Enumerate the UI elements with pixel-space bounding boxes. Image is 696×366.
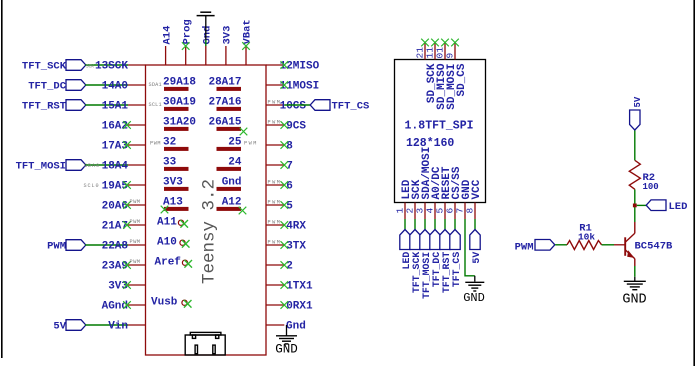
svg-text:1.8TFT_SPI: 1.8TFT_SPI (405, 120, 474, 133)
svg-text:PWM: PWM (268, 239, 282, 245)
Teensy pin 8 (right) (266, 144, 284, 146)
TFT top pin 10 SD_MOSI (444, 43, 446, 60)
TFT bottom pin 7 GND (464, 203, 466, 220)
svg-text:27A16: 27A16 (208, 96, 241, 108)
no-connect cross pin Prog (182, 42, 190, 50)
Teensy pin 19A5 (no connect) (127, 184, 146, 186)
svg-text:22A8: 22A8 (102, 241, 129, 253)
wire pin 1 to flag LED (404, 219, 406, 230)
no-connect cross pin 5 (281, 201, 289, 209)
Teensy pin 14A0 (connected) (128, 84, 146, 86)
svg-text:MISO: MISO (293, 61, 320, 73)
earth ground symbol above Teensy (inverted) (197, 15, 215, 17)
no-connect cross pin VBat (242, 42, 250, 50)
svg-text:A12: A12 (222, 196, 242, 208)
wire junction up to R2 (634, 189, 636, 203)
svg-text:9: 9 (445, 53, 456, 59)
svg-text:RX: RX (293, 221, 307, 233)
Teensy top pin 3V3 (225, 46, 227, 65)
TFT bottom pin 4 A0/DC (434, 203, 436, 220)
transistor Q1 BC547B (614, 222, 635, 266)
svg-text:PWM: PWM (268, 119, 282, 125)
svg-text:14A0: 14A0 (102, 81, 128, 93)
svg-text:8: 8 (465, 208, 476, 214)
no-connect cross pin 7 (281, 161, 289, 169)
wire pin 10CS to TFT_CS flag (284, 104, 310, 106)
sheet frame right border (693, 0, 695, 366)
svg-text:Gnd: Gnd (286, 321, 306, 333)
no-connect cross pin 4RX (281, 221, 289, 229)
svg-text:PWM: PWM (47, 241, 66, 253)
no-connect cross pad A12 (239, 207, 247, 215)
svg-text:RX1: RX1 (293, 301, 313, 313)
svg-text:GND: GND (463, 291, 485, 305)
net flag LED (646, 200, 666, 211)
wire TFT_DC to pin 14A0 (85, 84, 128, 86)
wire pin Gnd to GND symbol (286, 325, 288, 336)
svg-text:PWM: PWM (268, 199, 282, 205)
no-connect cross pin 11MOSI (281, 81, 289, 89)
svg-text:TFT_RST: TFT_RST (22, 101, 66, 113)
svg-text:30A19: 30A19 (163, 96, 196, 108)
svg-text:Aref: Aref (155, 256, 182, 268)
sheet frame left border (1, 0, 3, 358)
wire junction to LED flag (637, 204, 648, 206)
no-connect cross pad A13 (161, 206, 169, 214)
Teensy pin 5 (right) (266, 204, 284, 206)
svg-text:Teensy 3.2: Teensy 3.2 (200, 179, 220, 284)
svg-text:PWM: PWM (515, 241, 534, 253)
svg-text:25: 25 (228, 136, 242, 148)
IC U1 Teensy 3.2 body outline (146, 65, 267, 355)
Teensy pin 4RX (right) (266, 224, 284, 226)
no-connect cross pin 0RX1 (281, 301, 289, 309)
no-connect cross pin 2 (281, 261, 289, 269)
wire pin 4 to flag TFT_DC (434, 219, 436, 230)
svg-text:BC547B: BC547B (635, 241, 674, 253)
svg-text:26A15: 26A15 (208, 116, 241, 128)
svg-text:PWM: PWM (130, 239, 141, 245)
svg-text:Prog: Prog (181, 19, 193, 44)
svg-text:PWM: PWM (130, 199, 141, 205)
TFT top pin 11 SD_MISO (434, 43, 436, 60)
svg-text:18A4: 18A4 (102, 161, 129, 173)
Teensy pin 21A7 (no connect) (127, 224, 146, 226)
no-connect cross pad A15 (240, 128, 248, 136)
net flag TFT_CS (310, 100, 330, 111)
wire PWM to pin 22A8 (85, 244, 128, 246)
Teensy pin 3V3 (no connect) (127, 284, 146, 286)
Teensy pin 15A1 (connected) (128, 104, 146, 106)
TFT bottom pin 2 SCK (414, 203, 416, 220)
svg-text:LED: LED (669, 201, 688, 213)
svg-text:10: 10 (280, 101, 293, 113)
wire pin 2 to flag TFT_SCK (414, 219, 416, 230)
svg-text:GND: GND (622, 292, 646, 307)
no-connect cross pin 3TX (281, 241, 289, 249)
wire R1 to base (602, 244, 614, 246)
Teensy pin 20A6 (no connect) (127, 204, 146, 206)
Teensy pin 6 (right) (266, 184, 284, 186)
svg-text:PWM: PWM (268, 179, 282, 185)
svg-text:A10: A10 (157, 236, 177, 248)
svg-text:CS: CS (293, 121, 307, 133)
no-connect cross pin 12MISO (281, 61, 289, 69)
ground symbol GND at transistor (624, 280, 646, 282)
svg-text:SDA1: SDA1 (149, 82, 162, 88)
svg-text:Gnd: Gnd (202, 26, 214, 45)
svg-text:5V: 5V (53, 321, 66, 333)
ground symbol GND at Teensy (276, 335, 297, 337)
Teensy top pin A14 (165, 46, 167, 65)
svg-text:A13: A13 (163, 196, 183, 208)
svg-text:15A1: 15A1 (102, 101, 129, 113)
svg-text:Vusb: Vusb (151, 296, 178, 308)
net flag LED below TFT (400, 230, 410, 250)
USB connector drawing on Teensy (185, 332, 225, 355)
wire pin 6 to flag TFT_CS (454, 219, 456, 230)
Teensy top pin Gnd (205, 46, 207, 65)
no-connect cross pin 9CS (281, 121, 289, 129)
no-connect cross pin Vusb (184, 300, 192, 308)
svg-text:24: 24 (228, 156, 242, 168)
Teensy pin 10CS (right) (266, 104, 284, 106)
Teensy pin AGnd (no connect) (127, 304, 146, 306)
svg-text:TFT_MOSI: TFT_MOSI (16, 161, 66, 173)
wire R2 to 5V flag (634, 130, 636, 160)
svg-text:PWM: PWM (150, 141, 161, 147)
wire TFT_SCK to pin 13SCK (85, 64, 128, 66)
TFT bottom pin 3 SDA/MOSI (424, 203, 426, 220)
wire pin 8 to flag 5V (474, 219, 476, 230)
TFT bottom pin 8 VCC (474, 203, 476, 220)
Teensy pin Gnd (right) (266, 324, 284, 326)
svg-text:3V3: 3V3 (163, 176, 183, 188)
wire pin 3 to flag TFT_MOSI (424, 219, 426, 230)
Teensy pin Vin (connected) (128, 324, 146, 326)
svg-text:VBat: VBat (242, 19, 254, 44)
svg-text:100: 100 (643, 182, 659, 192)
svg-text:TX: TX (293, 241, 307, 253)
Teensy pin 7 (right) (266, 164, 284, 166)
svg-text:10k: 10k (578, 232, 595, 243)
svg-text:3V3: 3V3 (222, 26, 234, 45)
svg-text:PWM: PWM (244, 141, 258, 147)
net flag TFT_CS below TFT (450, 230, 460, 250)
svg-text:A14: A14 (161, 26, 173, 45)
supply flag 5V (right circuit) (630, 110, 640, 130)
TFT top pin 9 SD_CS (454, 43, 456, 60)
wire 5V to pin Vin (85, 324, 128, 326)
Teensy pin 0RX1 (right) (266, 304, 284, 306)
module U2 1.8TFT_SPI body outline (395, 60, 486, 203)
Teensy pin 9CS (right) (266, 124, 284, 126)
wire TFT_MOSI to pin 18A4 (85, 164, 128, 166)
net flag TFT_MOSI below TFT (420, 230, 430, 250)
ground symbol GND at TFT (465, 281, 484, 283)
resistor R2 zigzag (629, 160, 640, 189)
svg-text:SCL0: SCL0 (84, 183, 100, 189)
svg-text:MOSI: MOSI (293, 81, 319, 93)
resistor R1 zigzag (567, 241, 602, 250)
no-connect cross pin 8 (281, 141, 289, 149)
TFT bottom pin 6 CS/SS (454, 203, 456, 220)
svg-text:33: 33 (163, 156, 177, 168)
wire collector to junction (634, 205, 636, 222)
wire TFT_RST to pin 15A1 (85, 104, 128, 106)
svg-text:29A18: 29A18 (163, 76, 196, 88)
Teensy pin 2 (right) (266, 264, 284, 266)
Teensy pin 12MISO (right) (266, 64, 284, 66)
svg-text:TFT_DC: TFT_DC (28, 81, 67, 93)
net flag 5V below TFT (470, 230, 480, 250)
no-connect cross pin 6 (281, 181, 289, 189)
Teensy top pin VBat (245, 46, 247, 65)
svg-text:GND: GND (275, 343, 298, 357)
Teensy pin 3TX (right) (266, 244, 284, 246)
svg-text:PWM: PWM (268, 99, 282, 105)
Teensy pin 13SCK (connected) (128, 64, 146, 66)
no-connect cross pin A10 (182, 240, 190, 248)
wire Gnd pin to earth symbol (205, 40, 207, 46)
Teensy pin 1TX1 (right) (266, 284, 284, 286)
svg-text:CS: CS (293, 101, 307, 113)
svg-text:13SCK: 13SCK (95, 61, 128, 73)
TFT bottom pin 5 RESET (444, 203, 446, 220)
svg-text:VCC: VCC (471, 179, 483, 199)
no-connect cross pin 1TX1 (281, 281, 289, 289)
Teensy pin 18A4 (connected) (128, 164, 146, 166)
svg-text:31A20: 31A20 (163, 116, 196, 128)
net flag TFT_DC below TFT (430, 230, 440, 250)
wire emitter to ground (634, 266, 636, 277)
net flag TFT_RST below TFT (440, 230, 450, 250)
wire PWM flag to R1 (555, 244, 567, 246)
svg-text:SDA0: SDA0 (84, 163, 100, 169)
svg-text:PWM: PWM (268, 219, 282, 225)
svg-text:A11: A11 (157, 216, 177, 228)
svg-text:TFT_CS: TFT_CS (451, 252, 462, 287)
svg-text:Vin: Vin (108, 321, 128, 333)
svg-text:PWM: PWM (130, 259, 141, 265)
svg-text:SCK: SCK (86, 64, 94, 69)
no-connect cross pin A11 (180, 220, 188, 228)
svg-text:Gnd: Gnd (222, 176, 242, 188)
wire pin 5 to flag TFT_RST (444, 219, 446, 230)
svg-text:32: 32 (163, 136, 176, 148)
Teensy pin 11MOSI (right) (266, 84, 284, 86)
TFT bottom pin 1 LED (404, 203, 406, 220)
svg-text:TX1: TX1 (293, 281, 313, 293)
Teensy top pin Prog (185, 46, 187, 65)
Teensy pin 16A2 (no connect) (127, 124, 146, 126)
Teensy pin 23A9 (no connect) (127, 264, 146, 266)
svg-text:TFT_SCK: TFT_SCK (22, 61, 67, 73)
TFT top pin 12 SD_SCK (424, 43, 426, 60)
svg-text:5V: 5V (471, 252, 482, 264)
junction node (633, 204, 637, 208)
no-connect cross pin Aref (184, 260, 192, 268)
wire TFT GND pin to ground (465, 219, 475, 276)
svg-text:28A17: 28A17 (208, 76, 241, 88)
svg-text:SD_CS: SD_CS (456, 63, 468, 96)
net flag TFT_SCK below TFT (410, 230, 420, 250)
svg-text:TFT_CS: TFT_CS (332, 101, 370, 113)
svg-text:SCL1: SCL1 (149, 102, 162, 108)
Teensy pin 17A3 (no connect) (127, 144, 146, 146)
Teensy pin 22A8 (connected) (128, 244, 146, 246)
svg-text:5V: 5V (633, 96, 643, 107)
svg-text:PWM: PWM (130, 219, 141, 225)
